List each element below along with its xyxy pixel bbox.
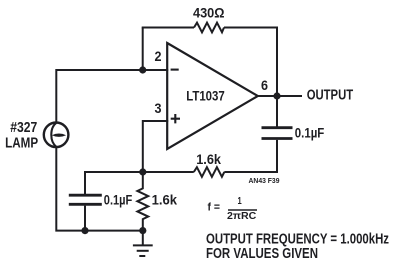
svg-text:3: 3 — [155, 100, 162, 116]
wire output vertical down to capacitor — [276, 96, 278, 127]
capacitor C1 0.1uF plates — [69, 194, 102, 197]
wire top horizontal to resistor — [142, 27, 194, 29]
wire top left vertical — [142, 28, 144, 71]
svg-text:6: 6 — [261, 77, 268, 93]
ground symbol — [133, 244, 153, 246]
ground stub — [142, 231, 144, 245]
resistor R2 1.6k horizontal — [194, 167, 225, 177]
svg-text:f =: f = — [208, 201, 221, 213]
svg-text:LT1037: LT1037 — [186, 88, 225, 104]
svg-text:OUTPUT: OUTPUT — [307, 87, 354, 103]
wire lamp to bottom — [56, 147, 143, 231]
node pin2 junction — [139, 66, 146, 73]
op-amp minus sign — [171, 69, 179, 71]
node output junction — [273, 92, 280, 99]
lamp filament lens — [52, 134, 66, 137]
wire pin6 output — [258, 95, 302, 97]
wire pin3 — [143, 121, 168, 172]
svg-text:0.1µF: 0.1µF — [104, 191, 133, 207]
node pin3 junction — [139, 168, 146, 175]
svg-text:2: 2 — [155, 48, 162, 64]
svg-text:AN43 F39: AN43 F39 — [249, 176, 280, 185]
op-amp plus sign — [171, 114, 180, 123]
svg-text:1.6k: 1.6k — [196, 151, 221, 167]
formula fraction bar — [228, 209, 257, 211]
resistor R 430 ohm — [194, 23, 224, 33]
op-amp U1 triangle — [167, 43, 258, 149]
lamp DS1 #327 circle — [44, 123, 69, 148]
wire capacitor to bottom horizontal — [224, 140, 277, 172]
svg-text:#327: #327 — [10, 120, 37, 136]
resistor R1 1.6k vertical — [137, 172, 148, 231]
capacitor C2 0.1uF plates — [262, 126, 293, 129]
svg-text:1: 1 — [238, 195, 242, 207]
svg-text:FOR VALUES GIVEN: FOR VALUES GIVEN — [206, 246, 318, 262]
svg-text:1.6k: 1.6k — [152, 191, 178, 207]
wire resistor to pin3 junction — [85, 172, 194, 194]
wire capacitor C1 bottom — [84, 206, 86, 231]
svg-text:2πRC: 2πRC — [227, 210, 257, 222]
node capacitor C1 bottom junction — [81, 227, 88, 234]
svg-text:LAMP: LAMP — [5, 135, 38, 151]
wire top horizontal from resistor to right corner — [224, 28, 277, 96]
wire lamp branch top — [56, 70, 142, 123]
wire pin2 horizontal — [143, 69, 169, 71]
svg-text:430Ω: 430Ω — [193, 5, 225, 21]
lamp filament curve — [51, 123, 56, 147]
node ground junction — [139, 227, 146, 234]
svg-text:0.1µF: 0.1µF — [295, 124, 325, 140]
